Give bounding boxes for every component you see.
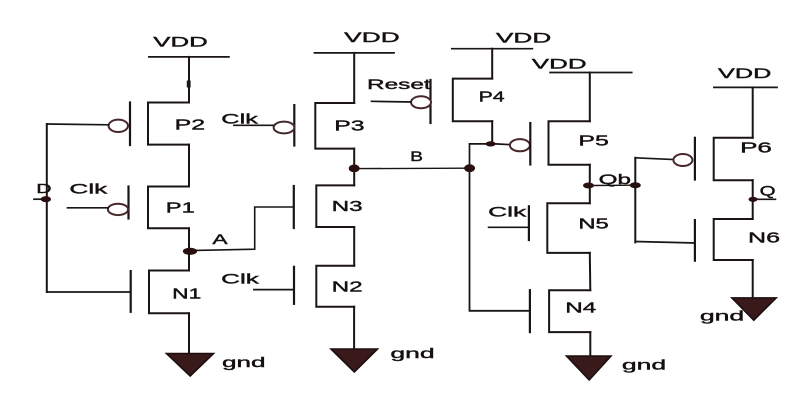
VDD rail stage3 — [550, 72, 632, 74]
svg-text:D: D — [36, 181, 51, 196]
wire N1 source to gnd — [188, 313, 190, 354]
svg-text:Clk: Clk — [221, 271, 261, 287]
svg-text:VDD: VDD — [344, 29, 400, 45]
ground gnd3 — [567, 356, 612, 380]
transistor P1 channel — [148, 187, 189, 229]
VDD rail P4 — [452, 48, 533, 50]
wire B bus vertical to N4 gate — [470, 168, 530, 311]
wire D bus to N1 gate — [47, 291, 131, 293]
transistor N6 gate bar — [694, 220, 696, 261]
transistor P3 channel — [315, 103, 354, 149]
transistor N2 channel — [316, 266, 354, 307]
svg-text:Clk: Clk — [221, 110, 259, 126]
transistor P4 gate bubble — [411, 96, 431, 108]
wire D bus vertical — [46, 124, 48, 292]
transistor N5 gate bar — [528, 206, 530, 240]
transistor P4 channel — [453, 79, 492, 122]
transistor P2 channel — [148, 103, 189, 145]
svg-text:Qb: Qb — [599, 171, 632, 187]
svg-text:A: A — [212, 231, 228, 247]
wire D input stub — [34, 198, 41, 200]
transistor P1 gate bar — [127, 187, 129, 219]
wire junction to B bus — [470, 144, 486, 164]
wire N6 source to gnd — [752, 260, 754, 298]
transistor P3 gate bubble — [274, 122, 295, 134]
wire N4 source to gnd — [589, 332, 591, 356]
wire node A to N1 drain — [188, 251, 190, 270]
wire Q stub — [758, 198, 776, 200]
transistor N4 channel — [549, 290, 590, 332]
ground gnd4 — [732, 298, 776, 320]
svg-text:gnd: gnd — [390, 345, 434, 361]
transistor N6 channel — [714, 219, 753, 260]
wire node A to N3 gate — [196, 207, 294, 250]
transistor P3 gate bar — [293, 105, 295, 145]
svg-text:N3: N3 — [332, 198, 363, 215]
transistor P6 gate bubble — [673, 154, 692, 166]
wire N5 source to N4 drain — [589, 253, 592, 290]
transistor N3 gate bar — [293, 186, 295, 228]
transistor P6 channel — [714, 138, 753, 180]
svg-text:N1: N1 — [172, 286, 201, 303]
transistor N4 gate bar — [529, 290, 531, 332]
transistor P1 gate bubble — [108, 204, 128, 215]
svg-text:VDD: VDD — [496, 29, 551, 45]
wire Clk lead to P1 bubble — [68, 207, 108, 209]
ground gnd2 — [331, 349, 378, 372]
junction dot P4 drain — [486, 141, 496, 146]
svg-text:P4: P4 — [479, 88, 505, 105]
node D dot — [41, 196, 51, 202]
wire Qb bus vertical — [634, 158, 636, 243]
node A dot — [183, 248, 197, 255]
svg-text:gnd: gnd — [700, 307, 744, 323]
wire P3 source to node B — [353, 149, 355, 186]
transistor P5 gate bar — [529, 123, 531, 165]
wire Qb bus to N6 gate — [635, 242, 695, 244]
wire P6 source to node Q — [752, 180, 754, 219]
wire N3 source to N2 drain — [353, 227, 355, 266]
transistor P2 gate bubble — [109, 120, 128, 132]
wire joint blob on P2 drain — [187, 81, 191, 88]
wire VDD tap to P6 drain — [752, 87, 754, 137]
node Qb dot left — [583, 183, 594, 189]
svg-text:gnd: gnd — [222, 354, 266, 370]
wire D bus to P2 bubble — [47, 123, 109, 126]
transistor N1 channel — [149, 271, 189, 314]
svg-text:VDD: VDD — [532, 56, 587, 72]
svg-text:Reset: Reset — [367, 76, 431, 92]
svg-text:P5: P5 — [578, 133, 608, 150]
svg-text:P3: P3 — [334, 118, 364, 135]
svg-text:N6: N6 — [748, 229, 780, 246]
wire Clk lead to P3 bubble — [234, 124, 274, 126]
VDD rail stage4 — [714, 86, 777, 88]
wire Qb bus to P6 bubble — [635, 158, 673, 160]
transistor N2 gate bar — [293, 267, 295, 304]
svg-text:P1: P1 — [166, 200, 195, 217]
wire Clk lead to N5 gate — [489, 226, 529, 228]
svg-text:Clk: Clk — [488, 203, 528, 219]
wire node Qb horizontal — [594, 184, 631, 186]
wire VDD tap to P4 drain — [491, 49, 493, 79]
VDD rail stage1 — [149, 56, 229, 58]
wire P5 source to node Qb — [589, 165, 591, 204]
transistor P5 gate bubble — [510, 139, 530, 151]
svg-text:P2: P2 — [175, 117, 206, 134]
node Q dot — [749, 197, 758, 202]
svg-text:B: B — [410, 148, 423, 164]
svg-text:Q: Q — [760, 183, 776, 199]
wire junction to P5 bubble — [496, 143, 510, 146]
wire P2 source to P1 drain — [188, 145, 190, 187]
VDD rail stage2 — [315, 52, 395, 54]
transistor P5 channel — [549, 121, 590, 165]
ground gnd1 — [167, 354, 214, 377]
wire Clk lead to N2 gate — [254, 289, 294, 291]
wire N2 source to gnd — [353, 307, 355, 349]
transistor N3 channel — [316, 185, 354, 227]
transistor N5 channel — [547, 203, 590, 253]
transistor P4 gate bar — [429, 80, 431, 123]
svg-text:VDD: VDD — [718, 65, 771, 81]
svg-text:N2: N2 — [332, 279, 363, 296]
transistor P2 gate bar — [129, 103, 131, 146]
wire VDD tap to P3 drain — [353, 53, 355, 103]
wire P1 source to node A — [188, 228, 190, 251]
wire Reset lead to P4 bubble — [372, 100, 412, 103]
svg-text:Clk: Clk — [69, 180, 109, 196]
wire VDD tap to P5 drain — [589, 73, 591, 122]
node Qb dot right — [630, 182, 641, 188]
node B dot — [349, 165, 360, 173]
transistor P6 gate bar — [694, 138, 696, 180]
svg-text:N4: N4 — [565, 300, 596, 317]
wire P4 source to junction — [491, 121, 493, 144]
wire VDD tap to P2 drain — [188, 57, 190, 103]
svg-text:VDD: VDD — [153, 34, 208, 50]
wire node B horizontal — [359, 167, 464, 169]
transistor N1 gate bar — [130, 271, 132, 312]
svg-text:gnd: gnd — [622, 357, 666, 373]
svg-text:N5: N5 — [578, 216, 608, 233]
node B right dot — [464, 164, 475, 172]
svg-text:P6: P6 — [740, 140, 772, 157]
